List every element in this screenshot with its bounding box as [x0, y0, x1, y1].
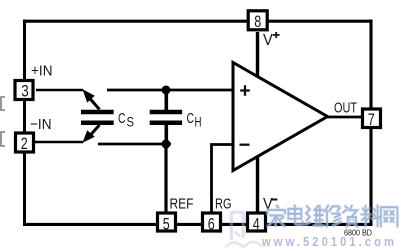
wire from pin 3	[36, 89, 83, 92]
svg-text:OUT: OUT	[334, 100, 357, 117]
pin 2	[16, 133, 34, 153]
svg-text:6: 6	[208, 215, 215, 234]
svg-text:2: 2	[21, 134, 28, 153]
svg-text:5: 5	[163, 215, 170, 234]
svg-text:−IN: −IN	[30, 116, 52, 133]
svg-text:C: C	[187, 110, 195, 127]
svg-text:V: V	[263, 32, 273, 49]
svg-text:www.520101.com: www.520101.com	[261, 235, 397, 249]
pin 4	[248, 213, 266, 234]
svg-text:RG: RG	[215, 196, 232, 213]
scan artifact marks on left edge	[1, 97, 5, 146]
label V-	[263, 196, 277, 213]
wire top border	[23, 20, 372, 23]
capacitor CS	[81, 112, 114, 123]
svg-text:8: 8	[254, 12, 261, 31]
label V+	[263, 32, 280, 49]
wire V- lead	[256, 156, 259, 214]
label CS	[118, 110, 134, 129]
svg-text:+IN: +IN	[31, 63, 53, 80]
label CH	[187, 110, 202, 129]
pin 7	[363, 109, 381, 129]
wire bottom border	[23, 223, 372, 226]
wire top rail to op-amp + input	[107, 89, 233, 92]
pin 8	[248, 11, 267, 31]
wire CH top lead	[165, 90, 169, 111]
wire REF lead	[164, 144, 167, 214]
svg-text:C: C	[118, 110, 126, 127]
switch S1 top (arrow to +IN wire)	[83, 89, 100, 109]
wire right border	[369, 20, 372, 226]
pin 3	[15, 81, 33, 101]
wire from pin 2	[35, 141, 83, 144]
switch S2 bottom (arrow to -IN wire)	[83, 125, 100, 143]
svg-text:S: S	[127, 113, 135, 129]
capacitor CH	[150, 112, 182, 123]
svg-text:4: 4	[253, 215, 260, 234]
wire OUT	[327, 116, 361, 119]
svg-text:REF: REF	[170, 196, 194, 213]
node junction top rail	[162, 86, 171, 95]
wire left border	[23, 20, 26, 226]
svg-text:7: 7	[368, 110, 375, 129]
wire bottom rail stub	[98, 143, 171, 146]
op-amp U1	[233, 63, 328, 171]
wire op-amp - input from RG	[212, 145, 234, 214]
wire V+ lead	[256, 32, 259, 76]
svg-text:H: H	[195, 114, 202, 129]
node junction bottom rail	[162, 140, 171, 149]
wire CH bottom lead	[165, 122, 169, 144]
watermark	[226, 206, 398, 249]
svg-text:3: 3	[21, 81, 29, 100]
pin 6	[203, 213, 221, 234]
pin 5	[158, 213, 176, 234]
